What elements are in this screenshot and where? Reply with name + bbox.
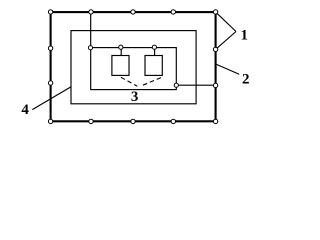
node chip 1 lead [119, 45, 123, 49]
leader from corner pin to label 1 [216, 12, 236, 31]
node chip 2 lead [152, 45, 156, 49]
dashed leader from chip 2 to label 3 [140, 78, 161, 87]
chip 2 lead stub [154, 48, 156, 56]
pin top 4 [171, 10, 175, 14]
pin top 3 [131, 10, 135, 14]
node carrier right edge [174, 83, 178, 87]
second rectangle (region 4) [71, 31, 196, 104]
pin bottom 4 [171, 119, 175, 123]
third rectangle (module carrier) [91, 48, 177, 90]
pin top-right corner [213, 10, 217, 14]
pin bottom 2 [89, 119, 93, 123]
dashed leader from chip 1 to label 3 [121, 77, 137, 86]
pin right upper [213, 47, 217, 51]
svg-text:4: 4 [21, 102, 29, 118]
pin top-left corner [48, 10, 52, 14]
svg-text:2: 2 [242, 72, 250, 88]
pin bottom-left corner [48, 119, 52, 123]
svg-text:1: 1 [241, 28, 249, 44]
node carrier top-left corner [88, 46, 92, 50]
pin top 2 [89, 10, 93, 14]
svg-text:3: 3 [131, 89, 139, 105]
leader from right pin to label 1 [216, 32, 236, 50]
leader from label 4 to second rectangle [32, 87, 71, 110]
pin bottom-right corner [213, 119, 217, 123]
chip 1 [112, 56, 129, 76]
board outline (outer rectangle) [51, 12, 216, 121]
wire from carrier node to right edge pin [176, 84, 215, 86]
pin left upper [48, 46, 52, 50]
pin left lower [48, 81, 52, 85]
pin bottom 3 [131, 119, 135, 123]
chip 1 lead stub [120, 48, 122, 56]
wire from top pin down to module carrier [90, 12, 92, 48]
chip 2 [145, 56, 162, 76]
pin right lower [213, 83, 217, 87]
leader from board edge to label 2 [216, 64, 240, 74]
